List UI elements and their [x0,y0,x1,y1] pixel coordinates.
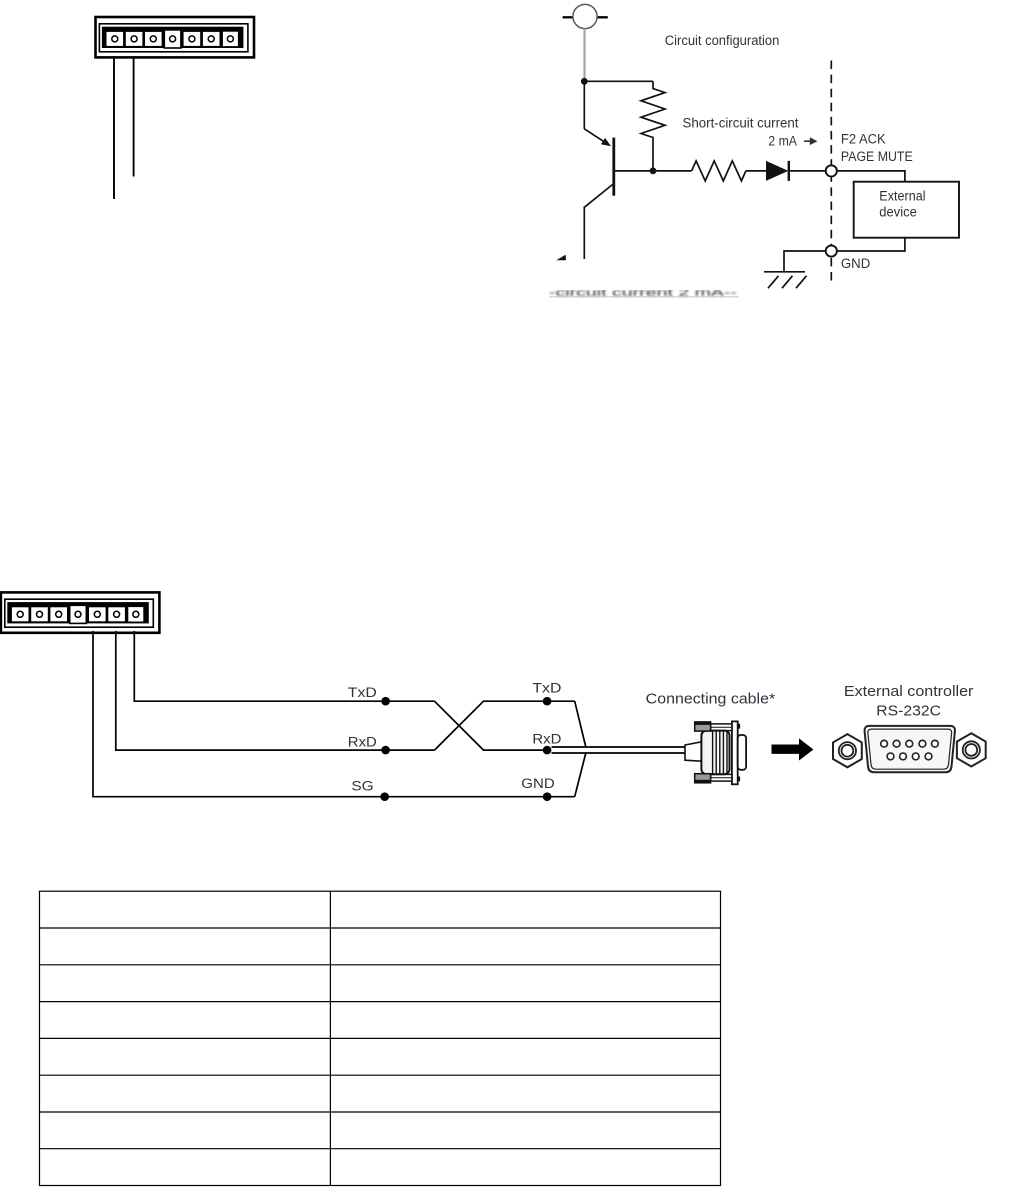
terminal F2 ACK / PAGE MUTE (open circle) [826,165,837,176]
terminal GND (open circle) [826,245,837,256]
resistor R1 (pull-up, vertical zigzag) [641,81,665,171]
connecting cable double line [552,747,686,753]
bottom knurled screw [695,774,711,783]
wire node A to resistor R1 [584,80,653,82]
svg-text:Circuit configuration: Circuit configuration [665,33,780,49]
svg-text:TxD: TxD [348,685,377,701]
node right RxD [543,746,552,755]
dashed interface boundary line [830,61,832,282]
wire transistor to node B [614,170,692,172]
wire CN2 to TxD line [134,631,434,701]
wire D1 to terminal [789,170,826,172]
D-sub male connector on cable [685,721,746,784]
D-sub shell protrusion [738,735,746,770]
svg-text:device: device [879,204,917,220]
node left TxD [381,697,390,706]
bottom rail [711,774,732,781]
transistor Q1 lower lead vertical [583,207,585,260]
pin holes row 1 [881,740,939,747]
top rail [711,724,732,731]
svg-text:PAGE MUTE: PAGE MUTE [841,149,913,165]
black arrow [772,738,814,760]
ground symbol [764,272,807,288]
table grid [40,891,721,1185]
svg-text:F2 ACK: F2 ACK [841,132,886,148]
right hex nut [957,733,986,766]
diode D1 [766,161,789,181]
svg-text:2 mA: 2 mA [768,134,797,150]
connector CN2 (7-pin terminal header, middle left) [1,592,160,632]
svg-text:GND: GND [841,256,870,272]
wire R2 to diode D1 [746,170,767,172]
top knurled screw [695,722,711,731]
power supply terminal [563,4,608,28]
transistor Q1 lower arrowhead [556,255,566,260]
svg-text:RxD: RxD [348,734,377,750]
resistor R2 (series, horizontal zigzag) [692,161,746,181]
svg-text:Short-circuit current: Short-circuit current [683,115,799,131]
node left SG [380,792,389,801]
transistor Q1 base bar [612,138,615,196]
wire TxD brace diagonal [575,701,586,747]
wire CN2 to SG line [93,631,575,797]
svg-text:External controller: External controller [844,684,974,700]
wire SG brace diagonal [575,753,586,797]
wire CN1 pin1 [113,56,115,199]
flange plate [732,721,738,784]
wire crossover RxD-to-TxD [435,701,575,750]
svg-text:RxD: RxD [532,732,561,748]
external device box [854,182,959,238]
D-sub female connector RS-232C [865,726,955,772]
node left RxD [381,746,390,755]
svg-text:External: External [879,188,925,204]
svg-text:GND: GND [521,776,554,792]
node A junction dot [581,78,588,85]
node right GND [543,792,552,801]
cable taper [685,742,701,761]
transistor Q1 lower lead diagonal [584,184,614,208]
node B junction dot [650,168,657,175]
svg-text:SG: SG [351,778,373,794]
wire external device box to GND terminal [837,238,905,251]
wire emitter drive with arrowhead into transistor [584,81,611,146]
wire GND terminal to ground [784,251,826,272]
arrow after 2 mA [804,137,818,145]
svg-text:TxD: TxD [532,681,561,697]
left hex nut [833,734,862,767]
cropped blurred text remnant [543,281,747,299]
svg-text:RS-232C: RS-232C [876,704,941,720]
wire CN2 to RxD line [116,631,435,750]
wire crossover TxD-to-RxD [435,701,552,750]
wire CN1 pin2 [133,56,135,176]
flange tabs [738,724,740,729]
node right TxD [543,697,552,706]
svg-text:Connecting cable*: Connecting cable* [646,692,776,708]
wire supply to node A [583,29,585,82]
pin holes row 2 [887,753,932,760]
connector CN1 (7-pin terminal header, top left) [96,17,255,57]
connector body with ribs [701,731,729,775]
wire terminal to external device box [837,171,905,182]
